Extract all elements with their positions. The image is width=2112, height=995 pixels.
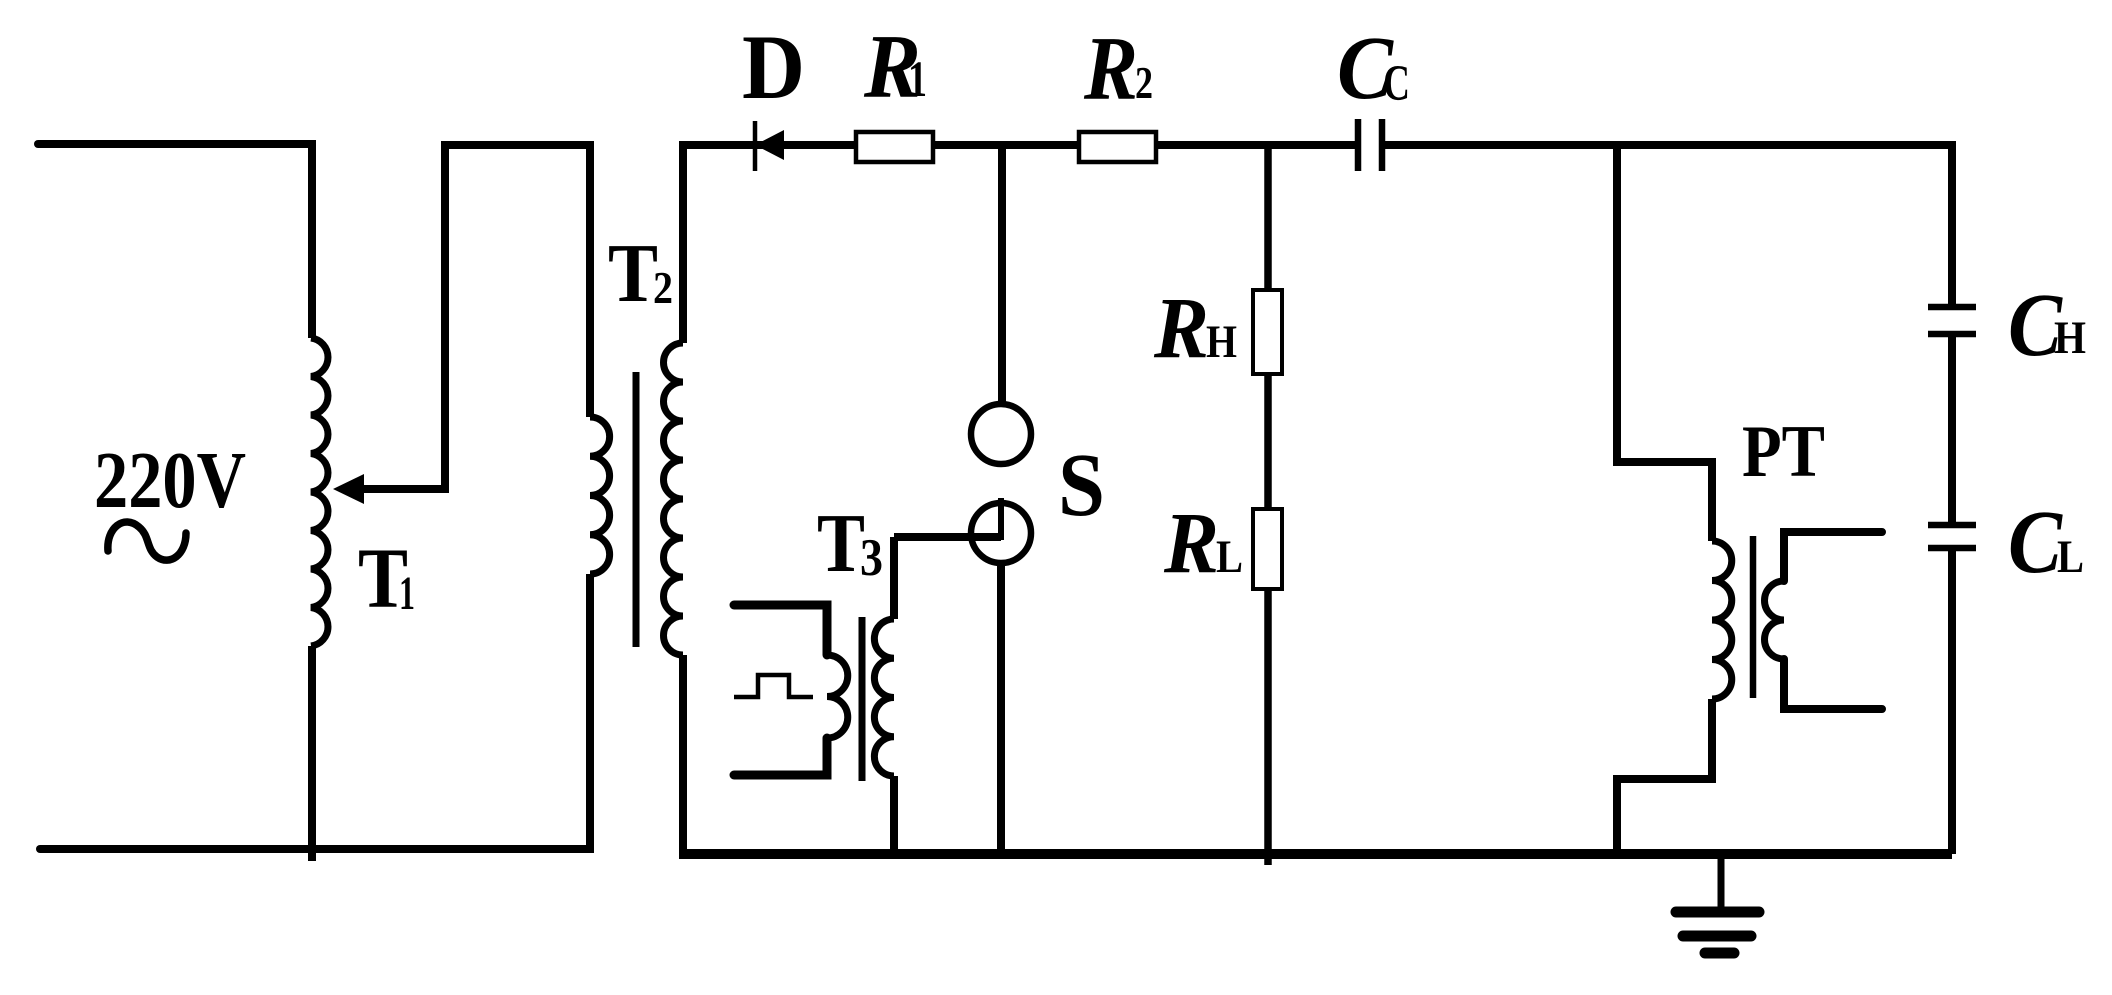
core T3	[859, 617, 866, 781]
capacitor CL bottom plate	[1928, 545, 1976, 552]
capacitor CH top plate	[1928, 304, 1976, 311]
wire bottom bus	[679, 849, 1952, 859]
wire T3 secondary bottom lead	[890, 776, 898, 854]
wire T2 secondary top lead	[679, 141, 687, 343]
wire T3 primary top	[734, 605, 827, 655]
wire R2 to Cc	[1158, 141, 1355, 149]
winding T3 primary	[827, 655, 848, 738]
resistor RH body	[1253, 290, 1282, 374]
wire T2 primary top lead to wiper link	[360, 145, 590, 489]
svg-text:C: C	[2008, 493, 2063, 592]
wire CL bottom lead	[1948, 551, 1956, 854]
wire PT primary bottom lead	[1617, 699, 1712, 854]
svg-text:1: 1	[399, 567, 415, 620]
winding PT secondary	[1765, 581, 1785, 659]
capacitor Cc right plate	[1379, 119, 1386, 171]
svg-text:R: R	[1153, 279, 1209, 376]
svg-text:C: C	[1383, 56, 1410, 112]
wire top bus T2 to R1	[679, 141, 854, 149]
svg-text:D: D	[742, 16, 805, 118]
svg-text:H: H	[2054, 312, 2086, 364]
wire top-left from AC source to T1	[38, 140, 312, 148]
ground stem	[1718, 854, 1725, 912]
switch S upper sphere	[971, 404, 1031, 464]
core PT	[1750, 536, 1757, 698]
wire T1 bottom lead	[308, 646, 316, 861]
resistor RL body	[1253, 509, 1282, 589]
svg-text:H: H	[1206, 316, 1237, 368]
svg-text:R: R	[1083, 18, 1138, 119]
wire switch branch top lead	[998, 145, 1006, 406]
ground bar 1	[1676, 907, 1759, 918]
wire switch bottom lead	[997, 561, 1005, 854]
svg-text:2: 2	[653, 262, 673, 313]
wire T3 primary bottom	[734, 738, 827, 775]
svg-text:L: L	[2057, 531, 2084, 583]
wire T3 secondary top lead	[890, 537, 898, 619]
wire RL bottom lead	[1264, 588, 1272, 865]
wire CH to CL	[1948, 337, 1956, 522]
wire PT branch from top bus	[1617, 145, 1712, 541]
winding T2 primary	[590, 417, 610, 574]
wire T2 secondary bottom lead	[679, 655, 687, 854]
ground bar 3	[1705, 948, 1734, 959]
switch S trigger pin	[998, 498, 1004, 540]
svg-text:T: T	[608, 227, 658, 320]
wire bottom-left return	[40, 845, 590, 853]
resistor R1 body	[856, 132, 933, 162]
wire T3 secondary to switch sphere	[894, 533, 1001, 541]
wire right column top	[1948, 141, 1956, 305]
arrowhead T1 wiper	[333, 474, 364, 504]
svg-text:R: R	[1163, 494, 1219, 591]
winding T1 (variac)	[311, 338, 328, 646]
svg-text:PT: PT	[1742, 411, 1825, 493]
winding T3 secondary	[874, 619, 894, 776]
wire PT secondary top lead	[1784, 532, 1882, 581]
pulse trigger symbol	[734, 675, 813, 697]
capacitor Cc left plate	[1355, 119, 1362, 171]
wire divider branch top lead	[1264, 145, 1272, 292]
svg-text:1: 1	[908, 52, 927, 108]
svg-text:2: 2	[1135, 57, 1153, 108]
core T2	[633, 372, 640, 647]
wire PT secondary bottom lead	[1784, 659, 1882, 709]
diode D bar (cathode)	[753, 121, 758, 171]
wire RH to RL	[1264, 373, 1272, 510]
diode D triangle	[755, 130, 784, 160]
ground bar 2	[1683, 931, 1751, 942]
AC source symbol	[108, 522, 186, 560]
winding T2 secondary	[664, 343, 684, 655]
svg-text:220V: 220V	[94, 435, 246, 525]
capacitor CL top plate	[1928, 522, 1976, 529]
wire T2 primary bottom lead	[586, 574, 594, 853]
svg-text:L: L	[1216, 531, 1243, 583]
svg-text:S: S	[1058, 436, 1105, 535]
svg-text:T: T	[817, 497, 865, 590]
wire Cc to top-right corner	[1385, 141, 1952, 149]
capacitor CH bottom plate	[1928, 331, 1976, 338]
wire R1 to R2	[935, 141, 1077, 149]
resistor R2 body	[1079, 132, 1156, 162]
winding PT primary	[1712, 541, 1732, 699]
wire T1 top lead	[308, 140, 316, 338]
switch S lower sphere	[971, 503, 1031, 563]
svg-text:3: 3	[860, 529, 883, 587]
